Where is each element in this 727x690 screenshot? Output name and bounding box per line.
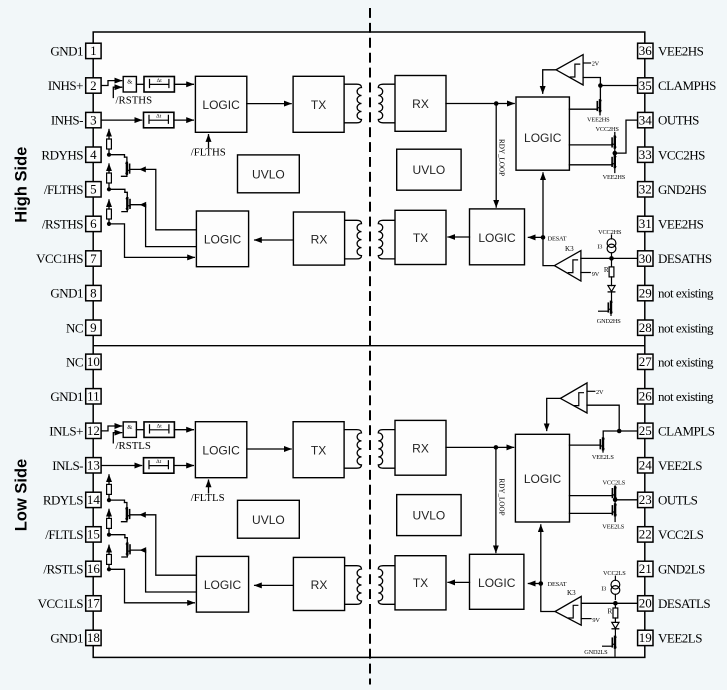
pin 19 box (638, 630, 653, 645)
wire RDY_LOOP down to LOGIC (495, 104, 497, 208)
pull-up resistor R14 for RDYLS with rail arrow (108, 494, 110, 500)
svg-text:14: 14 (87, 492, 101, 507)
wire RX to LOGIC (high side) (255, 239, 294, 241)
node DESATHS (609, 256, 614, 261)
block LOGIC (low side desat) (470, 554, 524, 609)
wire LOGIC to driver gates (569, 144, 612, 146)
svg-text:/RSTLS: /RSTLS (116, 440, 151, 452)
node CLAMPHS (598, 83, 603, 88)
svg-text:RDY_LOOP: RDY_LOOP (498, 139, 506, 176)
wire LOGIC to Q3 gate (130, 515, 196, 575)
svg-text:LOGIC: LOGIC (204, 233, 242, 247)
svg-text:not existing: not existing (658, 286, 714, 301)
svg-text:15: 15 (87, 527, 100, 542)
wire pin2 INHS+ to AND gate input 1 (102, 81, 122, 86)
svg-text:26: 26 (639, 389, 653, 404)
block output LOGIC (high side left lower) (196, 211, 248, 267)
pin 27 box (638, 354, 653, 369)
pin 11 box (86, 389, 101, 404)
wire K3 output up to main LOGIC (low side) (541, 525, 555, 612)
svg-text:6: 6 (90, 216, 97, 231)
net label /FLTLS with arrow into LOGIC (208, 480, 210, 493)
pin 32 box (638, 182, 653, 197)
svg-text:GND2HS: GND2HS (597, 318, 622, 325)
svg-text:UVLO: UVLO (413, 509, 446, 523)
transformer T2 (high side feedback channel) (344, 220, 395, 259)
node pin5 /FLTHS (107, 187, 111, 191)
node RDY_LOOP junction (low side) (494, 445, 499, 450)
block TX (low side) (293, 422, 344, 478)
pin 22 box (638, 527, 653, 542)
svg-text:17: 17 (87, 596, 101, 611)
transistor clamp FET (low side) (603, 431, 619, 439)
block RX (high side left) (293, 212, 344, 265)
svg-text:&: & (127, 424, 132, 431)
node DESATLS (613, 601, 618, 606)
wire filter F4 to LOGIC (175, 465, 194, 467)
block RX (low side left) (293, 557, 344, 610)
svg-text:not existing: not existing (658, 320, 714, 335)
svg-text:18: 18 (87, 630, 100, 645)
svg-text:VCC2LS: VCC2LS (658, 527, 704, 542)
svg-text:LOGIC: LOGIC (524, 472, 562, 486)
svg-text:INHS+: INHS+ (48, 78, 83, 93)
resistor R (desat blanking, low side) (614, 603, 616, 608)
pin 8 box (86, 285, 101, 300)
svg-text:9V: 9V (592, 617, 600, 624)
wire AND to deglitch filter (136, 83, 144, 85)
svg-text:UVLO: UVLO (413, 163, 446, 177)
transistor Q3 (RDYLS open drain) (126, 508, 130, 519)
node pin15 /FLTLS (107, 533, 111, 537)
diode D1 (desat) (608, 286, 615, 292)
svg-text:29: 29 (639, 285, 652, 300)
block LOGIC (high side desat) (470, 209, 525, 265)
pin 21 box (638, 561, 653, 576)
wire LOGIC to Q1 gate (130, 169, 196, 229)
wire DESAT to LOGIC (low side desat) (528, 583, 540, 585)
node OUTHS (613, 151, 618, 156)
block TX (low side right) (395, 556, 446, 610)
wire LOGIC to driver gates (low side) (570, 495, 613, 497)
svg-text:RX: RX (412, 441, 429, 455)
svg-text:4: 4 (90, 147, 97, 162)
current source I3 (low side) (614, 576, 616, 580)
svg-text:TX: TX (413, 576, 428, 590)
op-amp desat comparator K3 (low side) (555, 596, 581, 625)
diode D2 (desat, low side) (612, 622, 619, 628)
svg-text:K3: K3 (567, 589, 576, 597)
svg-text:not existing: not existing (658, 354, 714, 369)
svg-text:LOGIC: LOGIC (202, 98, 240, 112)
transistor pull-down driver FET (low side) (614, 500, 616, 505)
svg-text:/RSTLS: /RSTLS (43, 562, 83, 577)
current source I3 (611, 235, 613, 239)
pin 24 box (638, 458, 653, 473)
svg-text:OUTLS: OUTLS (658, 493, 698, 508)
wire RX to main LOGIC (446, 103, 514, 105)
svg-text:RDY_LOOP: RDY_LOOP (498, 478, 506, 515)
svg-text:VEE2LS: VEE2LS (592, 454, 614, 461)
pin 12 box (86, 423, 101, 438)
svg-text:VEE2LS: VEE2LS (602, 524, 624, 531)
svg-text:TX: TX (311, 443, 326, 457)
wire LOGIC to TX (low side right) (448, 581, 470, 583)
block UVLO (low side left) (238, 500, 300, 538)
divider line between High Side and Low Side (93, 345, 645, 347)
block RX (high side right) (395, 76, 446, 132)
svg-text:LOGIC: LOGIC (204, 578, 242, 592)
pin 20 box (638, 596, 653, 611)
svg-text:GND2LS: GND2LS (584, 649, 608, 656)
svg-text:CLAMPHS: CLAMPHS (658, 78, 716, 93)
node pin16 /RSTLS (107, 567, 111, 571)
svg-text:VEE2HS: VEE2HS (587, 117, 610, 124)
svg-text:VEE2HS: VEE2HS (658, 217, 704, 232)
wire filter F2 to LOGIC (175, 119, 194, 121)
wire AND to deglitch filter (136, 429, 144, 431)
pin 6 box (86, 216, 101, 231)
deglitch filter F2 (144, 112, 174, 128)
svg-text:VCC2HS: VCC2HS (658, 147, 705, 162)
pin 23 box (638, 492, 653, 507)
wire DESATLS comparator input to pin 20 (581, 602, 637, 604)
wire RX to main LOGIC (low side) (446, 446, 514, 448)
pin 14 box (86, 492, 101, 507)
node pin14 RDYLS (107, 498, 111, 502)
pin 3 box (86, 112, 101, 127)
svg-text:20: 20 (639, 596, 652, 611)
svg-text:10: 10 (87, 354, 100, 369)
pin 9 box (86, 320, 101, 335)
svg-text:27: 27 (639, 354, 653, 369)
block output LOGIC (low side left lower) (196, 556, 248, 612)
svg-text:LOGIC: LOGIC (478, 231, 516, 245)
svg-text:DESATLS: DESATLS (658, 596, 710, 611)
svg-text:K3: K3 (565, 245, 574, 253)
pin 34 box (638, 112, 653, 127)
wire CLAMPHS to pin 35 (600, 85, 637, 87)
transistor desat discharge FET (low side) (612, 637, 616, 648)
wire filter F1 to LOGIC (174, 83, 193, 85)
wire OUTLS node to pin 23 (615, 499, 638, 501)
wire pin13 INLS- to filter F4 (102, 465, 142, 467)
svg-text:DESATHS: DESATHS (658, 251, 712, 266)
svg-text:/FLTHS: /FLTHS (44, 182, 83, 197)
transistor clamp FET (high side) (599, 86, 601, 101)
node RDY_LOOP junction (494, 101, 499, 106)
svg-text:OUTHS: OUTHS (658, 113, 699, 128)
transistor desat discharge FET (608, 302, 612, 313)
svg-text:VCC2HS: VCC2HS (598, 229, 622, 236)
wire comparator input from CLAMPLS node (587, 405, 619, 431)
svg-text:VCC1HS: VCC1HS (36, 251, 83, 266)
wire pin15 to transistor Q4 drain (109, 535, 125, 538)
pull-up resistor R6 for /RSTHS with rail arrow (108, 219, 110, 224)
svg-text:21: 21 (639, 561, 652, 576)
transistor Q4 (/FLTLS open drain) (126, 544, 130, 555)
pin 17 box (86, 596, 101, 611)
wire /RSTHS stub to AND gate input 2 (113, 87, 121, 97)
svg-text:2V: 2V (592, 61, 600, 68)
svg-text:R: R (608, 608, 613, 616)
block RX (low side right) (395, 420, 446, 475)
svg-text:NC: NC (66, 320, 83, 335)
transformer T3 (low side signal channel) (344, 430, 395, 469)
svg-text:TX: TX (311, 98, 326, 112)
svg-text:I3: I3 (597, 244, 602, 251)
block UVLO (low side right) (397, 495, 461, 536)
wire pin5 to transistor Q2 drain (109, 189, 125, 192)
svg-text:16: 16 (87, 561, 101, 576)
svg-text:RX: RX (412, 97, 429, 111)
transformer T4 (low side feedback channel) (344, 566, 395, 605)
svg-text:36: 36 (639, 43, 653, 58)
svg-text:5: 5 (90, 182, 97, 197)
op-amp desat comparator K3 (554, 251, 581, 281)
svg-text:23: 23 (639, 492, 652, 507)
node DESAT (low side) (539, 581, 544, 586)
svg-text:LOGIC: LOGIC (524, 131, 562, 145)
node pin6 /RSTHS (107, 222, 111, 226)
pin 33 box (638, 147, 653, 162)
deglitch filter F3 (144, 422, 174, 438)
block input LOGIC (high side left) (195, 76, 246, 132)
svg-text:GND1: GND1 (50, 389, 83, 404)
svg-text:/RSTHS: /RSTHS (42, 217, 83, 232)
svg-text:GND1: GND1 (50, 631, 83, 646)
wire K3 output up to main LOGIC (543, 173, 554, 266)
wire pin14 to transistor Q3 drain (109, 500, 125, 502)
svg-text:LOGIC: LOGIC (202, 443, 240, 457)
IC body interior (93, 32, 645, 657)
svg-text:12: 12 (87, 423, 100, 438)
transformer T1 (high side signal channel) (344, 84, 395, 123)
svg-text:GND2LS: GND2LS (658, 562, 705, 577)
svg-text:RX: RX (311, 233, 328, 247)
svg-text:GND1: GND1 (50, 286, 83, 301)
svg-text:2: 2 (90, 78, 97, 93)
svg-text:VEE2LS: VEE2LS (658, 631, 702, 646)
pull-up resistor R15 for /FLTLS with rail arrow (108, 528, 110, 534)
wire 9V reference (low side) (581, 618, 591, 620)
wire DESATHS comparator input to pin 30 (581, 257, 638, 259)
wire pin16 /RSTLS into LOGIC (109, 569, 194, 603)
pin 28 box (638, 320, 653, 335)
pin 36 box (638, 43, 653, 58)
pin 13 box (86, 458, 101, 473)
wire LOGIC to TX (247, 448, 291, 450)
wire /RSTLS stub to AND gate input 2 (113, 433, 121, 443)
pin 10 box (86, 354, 101, 369)
svg-text:24: 24 (639, 458, 653, 473)
wire DESAT to LOGIC (desat) (528, 236, 543, 238)
pin 30 box (638, 251, 653, 266)
svg-text:LOGIC: LOGIC (478, 576, 516, 590)
block input LOGIC (low side left) (195, 422, 246, 478)
op-amp clamp comparator 2V (low side) (560, 383, 587, 413)
svg-text:VEE2HS: VEE2HS (603, 174, 626, 181)
svg-text:7: 7 (90, 251, 97, 266)
pin 26 box (638, 389, 653, 404)
AND gate U2 (123, 422, 136, 438)
svg-text:UVLO: UVLO (252, 513, 285, 527)
transistor pull-up driver FET (low side) (614, 486, 616, 488)
svg-text:GND2HS: GND2HS (658, 182, 707, 197)
op-amp clamp comparator 2V (556, 55, 583, 85)
svg-text:INLS-: INLS- (52, 458, 83, 473)
block main LOGIC (high side right) (516, 97, 569, 170)
wire pin4 to transistor Q1 drain (109, 155, 125, 157)
svg-text:22: 22 (639, 527, 652, 542)
block main LOGIC (low side right) (515, 434, 569, 522)
wire OUTHS node to pin 34 (615, 120, 638, 153)
svg-text:CLAMPLS: CLAMPLS (658, 423, 715, 438)
svg-text:9V: 9V (592, 271, 600, 278)
svg-text:28: 28 (639, 320, 652, 335)
svg-text:19: 19 (639, 630, 652, 645)
pin 2 box (86, 78, 101, 93)
node DESAT (541, 235, 546, 240)
svg-text:DESAT: DESAT (548, 235, 567, 242)
wire 2V reference (low side) (587, 390, 595, 392)
svg-text:R: R (604, 266, 609, 274)
svg-text:30: 30 (639, 251, 652, 266)
pin 5 box (86, 182, 101, 197)
svg-text:/FLTLS: /FLTLS (191, 492, 225, 504)
svg-text:&: & (127, 78, 132, 85)
wire CLAMPLS to pin 25 (619, 430, 637, 432)
svg-text:13: 13 (87, 458, 100, 473)
transistor pull-up driver FET (high side) (614, 133, 616, 138)
wire LOGIC to clamp FET gate (low side) (570, 444, 601, 446)
svg-text:3: 3 (90, 112, 97, 127)
pull-up resistor R4 for RDYHS with rail arrow (108, 149, 110, 155)
deglitch filter F1 (144, 77, 174, 93)
svg-text:31: 31 (639, 216, 652, 231)
svg-text:8: 8 (90, 285, 97, 300)
svg-text:/FLTHS: /FLTHS (191, 147, 226, 159)
wire LOGIC to Q2 gate (130, 205, 196, 247)
pin 18 box (86, 630, 101, 645)
wire filter F3 to LOGIC (174, 429, 193, 431)
svg-text:35: 35 (639, 78, 652, 93)
svg-text:INLS+: INLS+ (49, 423, 83, 438)
block TX (high side right) (395, 210, 446, 264)
wire LOGIC to clamp FET gate (569, 108, 597, 110)
svg-text:not existing: not existing (658, 389, 714, 404)
resistor R (desat blanking) (611, 258, 613, 267)
svg-text:INHS-: INHS- (51, 113, 83, 128)
svg-text:VEE2LS: VEE2LS (658, 458, 702, 473)
block TX (high side) (293, 76, 344, 132)
wire comparator input from CLAMPHS node (583, 78, 600, 86)
svg-text:34: 34 (639, 112, 653, 127)
transistor pull-down driver FET (high side) (614, 153, 616, 157)
svg-text:9: 9 (90, 320, 97, 335)
pin 35 box (638, 78, 653, 93)
wire 9V reference (581, 272, 590, 274)
pull-up resistor R16 for /RSTLS with rail arrow (108, 564, 110, 569)
wire LOGIC to Q4 gate (130, 550, 196, 592)
block UVLO (high side left) (238, 155, 300, 193)
pin 25 box (638, 423, 653, 438)
svg-text:RDYHS: RDYHS (41, 147, 83, 162)
node CLAMPLS (617, 429, 622, 434)
svg-text:25: 25 (639, 423, 652, 438)
pin 29 box (638, 285, 653, 300)
wire pin3 INHS- to filter F2 (102, 119, 142, 121)
svg-text:1: 1 (90, 43, 97, 58)
svg-text:/FLTLS: /FLTLS (45, 527, 83, 542)
wire comparator output to LOGIC top (543, 70, 556, 93)
svg-text:RDYLS: RDYLS (43, 493, 83, 508)
svg-text:VEE2HS: VEE2HS (658, 44, 704, 59)
svg-text:NC: NC (66, 354, 83, 369)
svg-text:11: 11 (87, 389, 100, 404)
svg-text:VCC2HS: VCC2HS (596, 126, 620, 133)
deglitch filter F4 (144, 458, 174, 474)
wire 2V reference (583, 62, 590, 64)
node pin4 RDYHS (107, 153, 111, 157)
wire LOGIC to TX (high side right) (448, 236, 470, 238)
wire RX to LOGIC (low side) (255, 584, 294, 586)
transistor Q1 (RDYHS open drain) (126, 163, 130, 174)
wire pin6 /RSTHS into LOGIC (109, 224, 194, 258)
wire LOGIC to TX (247, 103, 291, 105)
transistor Q2 (/FLTHS open drain) (126, 198, 130, 209)
node OUTLS (613, 498, 618, 503)
svg-text:VCC2LS: VCC2LS (603, 480, 626, 487)
net label /FLTHS with arrow into LOGIC (208, 135, 210, 148)
svg-text:Low Side: Low Side (13, 459, 31, 531)
svg-text:GND1: GND1 (50, 44, 83, 59)
svg-text:33: 33 (639, 147, 652, 162)
pin 4 box (86, 147, 101, 162)
svg-text:DESAT: DESAT (548, 581, 567, 588)
svg-text:/RSTHS: /RSTHS (116, 95, 153, 107)
svg-text:VCC2LS: VCC2LS (603, 570, 626, 577)
svg-text:I3: I3 (601, 585, 606, 592)
block UVLO (high side right) (397, 149, 461, 190)
svg-text:RX: RX (311, 578, 328, 592)
isolation barrier dashed line (369, 8, 371, 685)
pull-up resistor R5 for /FLTHS with rail arrow (108, 183, 110, 189)
pin 7 box (86, 251, 101, 266)
AND gate U1 (123, 77, 136, 93)
wire comparator output to LOGIC top (low side) (547, 398, 561, 430)
svg-text:High Side: High Side (13, 147, 31, 223)
svg-text:32: 32 (639, 182, 652, 197)
pin 1 box (86, 43, 101, 58)
IC outer border (93, 32, 645, 657)
svg-text:UVLO: UVLO (252, 168, 285, 182)
wire pin12 INLS+ to AND gate input 1 (102, 426, 122, 431)
pin 31 box (638, 216, 653, 231)
svg-text:TX: TX (413, 231, 428, 245)
wire RDY_LOOP down to LOGIC (low side) (495, 447, 497, 552)
svg-text:2V: 2V (596, 389, 604, 396)
pin 16 box (86, 561, 101, 576)
svg-text:VCC1LS: VCC1LS (38, 596, 84, 611)
pin 15 box (86, 527, 101, 542)
